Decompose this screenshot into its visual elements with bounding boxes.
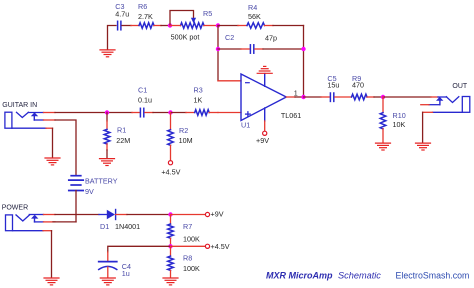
battery BT1 9V [69,176,83,191]
svg-text:1K: 1K [194,96,203,105]
resistor R7 [170,215,172,225]
wire: C1 to node F [145,112,153,114]
svg-text:0.1u: 0.1u [138,96,152,105]
svg-text:22M: 22M [116,136,130,145]
jack J2 tip arrow [436,97,443,101]
svg-text:+9V: +9V [256,136,269,145]
diode D1 [107,210,115,219]
wire: D1 to node I [116,214,127,216]
svg-text:R8: R8 [183,253,192,262]
wire: power ring to battery plus [35,221,44,223]
svg-text:+4.5V: +4.5V [161,168,180,177]
terminal +9V (op-amp V+) [263,131,267,135]
wire: guitar ring to battery minus [34,119,43,121]
svg-text:10M: 10M [179,136,193,145]
svg-text:R10: R10 [393,111,406,120]
resistor R3 [195,110,210,116]
svg-text:C2: C2 [225,33,234,42]
ground (C4) [100,278,115,285]
svg-text:500K pot: 500K pot [171,32,200,41]
ground (op-amp V-, inverted) [257,66,272,73]
svg-text:ElectroSmash.com: ElectroSmash.com [396,270,470,280]
svg-text:470: 470 [352,81,364,90]
wire: right feedback vertical [303,26,305,98]
ground (C3 top-left) [100,50,115,57]
junction node A (pot wiper tie) [168,23,172,27]
svg-text:R3: R3 [194,86,203,95]
wire: op-amp output to node G [286,96,295,98]
svg-text:R5: R5 [203,9,212,18]
junction node D (C2 right) [301,47,305,51]
wire: node F to R3 [171,112,187,114]
wire: node B to R4 [218,25,238,27]
wire: pot wiper loop [170,11,194,26]
ground (R1) [100,159,115,166]
wire: R3 to op-amp noninverting input [209,112,218,114]
wire: OUT ring stub [429,104,440,106]
svg-text:100K: 100K [183,235,200,244]
capacitor C1 [140,108,143,117]
potentiometer R5 [181,23,205,29]
resistor R8 [170,246,172,256]
wire: power tip to D1 [29,214,43,216]
svg-text:4.7u: 4.7u [115,10,129,19]
resistor R9 [352,94,368,100]
resistor R4 [247,23,265,29]
junction node C (C2 left) [216,47,220,51]
op-amp U1 TL061 [241,74,286,121]
resistor R1 [106,113,108,122]
svg-text:R7: R7 [183,222,192,231]
wire: R4 to right feedback corner [265,25,274,27]
svg-text:U1: U1 [241,120,250,129]
wire: R6 to node A [154,25,161,27]
wire: input signal row [28,112,43,114]
jack J3 tip arrow [31,215,38,219]
wire: C3 to R6 [122,25,131,27]
ground (power sleeve) [44,278,59,285]
svg-text:+9V: +9V [211,210,224,219]
junction node H (R10 top) [381,95,385,99]
junction node G (output/feedback) [301,95,305,99]
svg-text:+4.5V: +4.5V [211,242,230,251]
junction node B [216,23,220,27]
svg-text:15u: 15u [327,81,339,90]
terminal +4.5V (R2 bottom) [168,161,172,165]
wire: C2 to right feedback vertical [255,48,263,50]
wire: pot to node B [204,25,218,27]
jack J2 OUT body [462,97,470,113]
wire: node C to C2 [218,48,241,50]
svg-text:10K: 10K [393,120,406,129]
svg-text:9V: 9V [85,187,94,196]
svg-text:D1: D1 [100,222,109,231]
wire: C5 to R9 [335,96,352,98]
svg-text:R1: R1 [117,126,126,135]
resistor R6 [139,23,154,29]
terminal +4.5V [205,244,209,248]
svg-text:OUT: OUT [452,83,468,90]
jack J2 tip spring [446,97,459,103]
svg-text:R6: R6 [138,2,147,11]
svg-text:MXR MicroAmp: MXR MicroAmp [266,271,333,281]
jack J3 tip spring [16,215,30,221]
ground (OUT sleeve) [416,143,431,150]
svg-text:1u: 1u [122,269,130,278]
wire: guitar sleeve to ground [12,127,46,129]
wire: R9 to node H [367,96,374,98]
ground (guitar sleeve) [45,158,60,165]
wire: node A to pot [170,25,181,27]
jack J3 POWER body [6,215,13,231]
wire: node J to +4.5V terminal [171,245,206,247]
wire: battery plus down [75,191,77,222]
ground (R10) [376,143,391,150]
jack J1 GUITAR IN body [5,112,12,128]
svg-text:TL061: TL061 [281,111,301,120]
jack J1 tip arrow [31,112,38,116]
wire: left feedback vertical [217,26,219,81]
wire: node I to +9V terminal [171,214,206,216]
svg-text:Schematic: Schematic [338,271,381,281]
svg-text:GUITAR IN: GUITAR IN [2,102,37,109]
junction node J (+4.5V rail) [168,244,172,248]
op-amp plus sign [246,112,251,117]
junction node I (+9V rail) [168,212,172,216]
svg-text:56K: 56K [248,12,261,21]
junction node F (R2 top) [168,110,172,114]
jack J1 tip spring [17,112,29,117]
wire: node G to C5 [304,96,322,98]
wire: C4 to ground [107,267,109,278]
resistor R2 [170,113,172,130]
wire: power sleeve to ground [13,230,44,232]
wire: inverting input [218,80,241,82]
svg-text:POWER: POWER [2,205,28,212]
op-amp V- pin (blue) [264,74,266,87]
svg-text:C1: C1 [138,86,147,95]
wire: node J to C4 [108,246,171,252]
capacitor C2 [250,45,253,53]
wire: ground to C3 [108,26,117,50]
svg-text:1N4001: 1N4001 [115,222,140,231]
pot wiper arrow [191,18,196,23]
ground (R8) [163,278,178,285]
svg-text:BATTERY: BATTERY [85,177,118,186]
op-amp V+ pin [264,108,266,121]
capacitor C5 [330,93,333,101]
svg-text:47p: 47p [265,33,277,42]
resistor R10 [382,97,384,113]
svg-text:100K: 100K [183,264,200,273]
svg-text:R2: R2 [179,126,188,135]
wire: node H to OUT jack tip [383,96,431,98]
capacitor C4 (polarized) [99,261,117,263]
svg-text:1: 1 [294,89,298,98]
op-amp minus sign [246,82,250,84]
wire: OUT sleeve to ground [433,111,463,113]
svg-text:2.7K: 2.7K [138,12,153,21]
junction node E (R1 top) [105,110,109,114]
terminal +9V [205,212,209,216]
capacitor C3 [118,21,121,30]
